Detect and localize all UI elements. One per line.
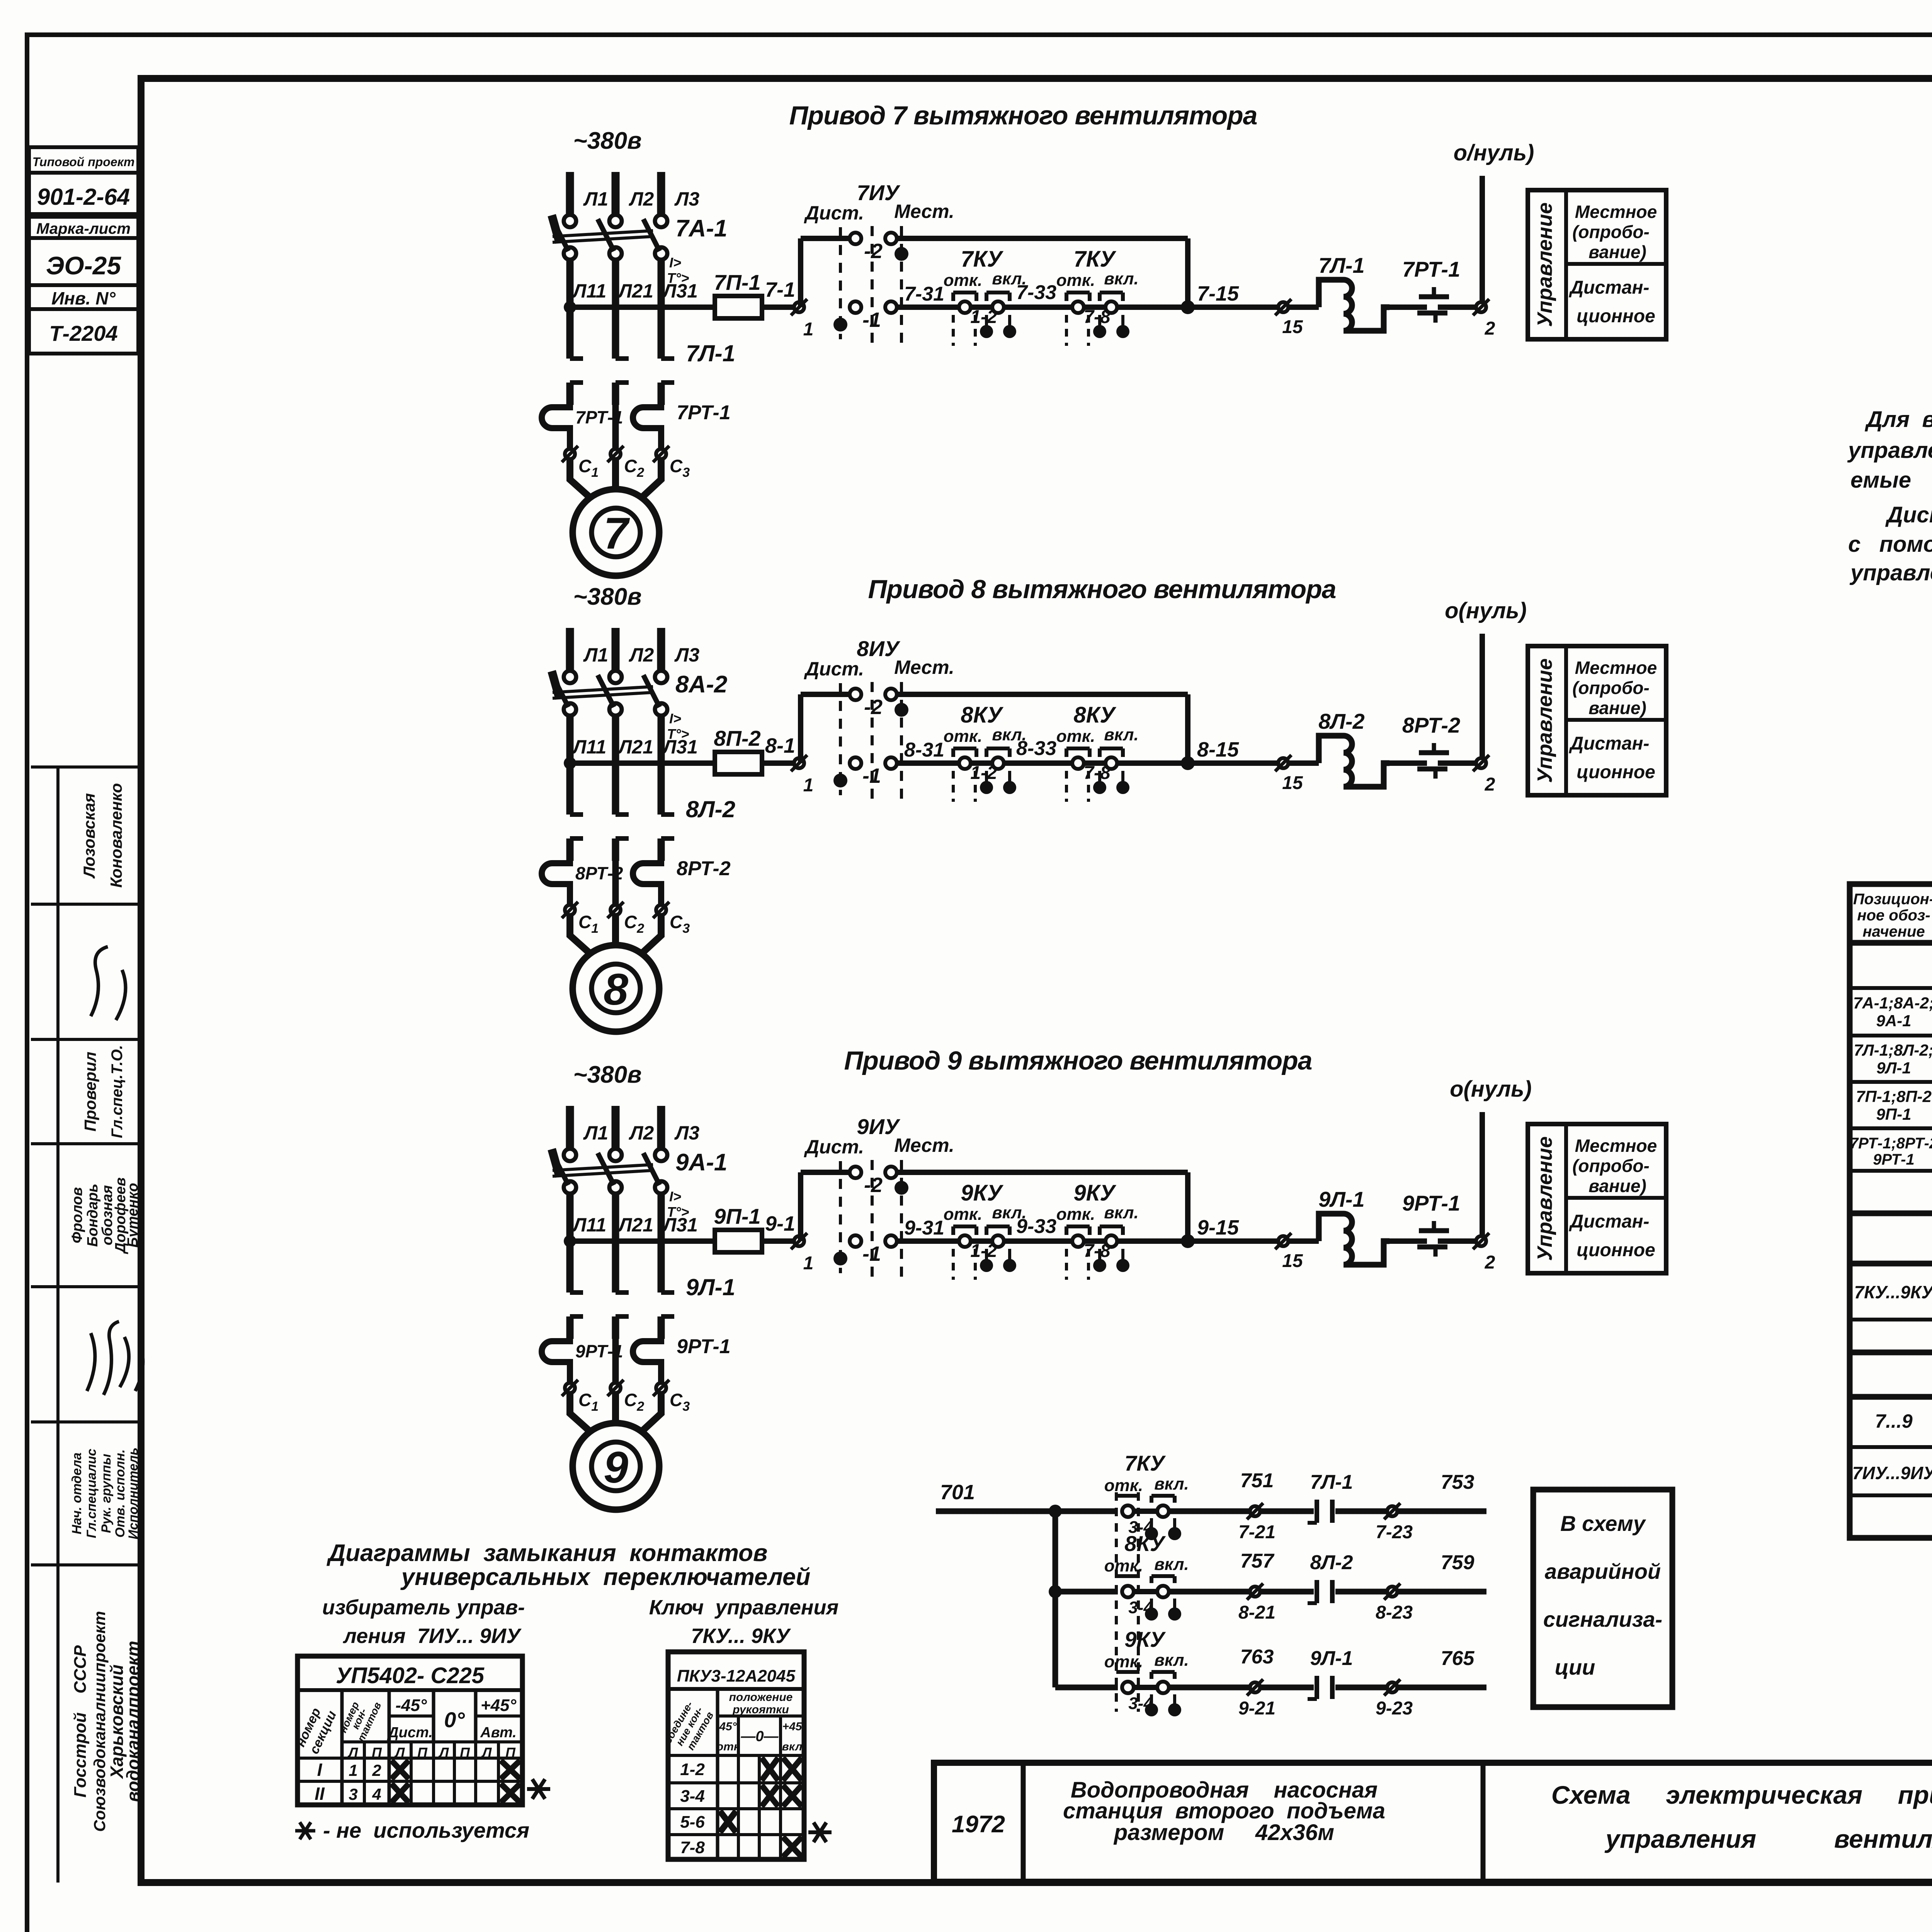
svg-text:2: 2 — [1485, 1252, 1495, 1273]
svg-text:751: 751 — [1240, 1469, 1274, 1492]
motor terminals С1 С2 С3 (9) — [562, 1380, 690, 1414]
thermal relay heater 7РТ-1 pole3 — [633, 401, 731, 448]
node labels Л1 Л2 Л3 (9) — [583, 1122, 699, 1144]
svg-text:7П-1;8П-2: 7П-1;8П-2 — [1856, 1087, 1932, 1105]
contactor main contacts 8Л-2 — [570, 796, 735, 861]
wire lower branch after selector (9) — [896, 1238, 959, 1244]
contactor coil 9Л-1 — [1318, 1187, 1389, 1265]
wire bypass riser and upper branch (9) — [801, 1172, 850, 1241]
aux circuit node 701 — [936, 1481, 1118, 1511]
svg-text:9РТ-1: 9РТ-1 — [1873, 1151, 1914, 1168]
selector switch 7ИУ — [804, 180, 954, 347]
svg-text:Дист.: Дист. — [804, 1136, 864, 1158]
control mode box (7) — [1528, 190, 1666, 339]
svg-text:7А-1: 7А-1 — [675, 215, 727, 242]
svg-text:45°: 45° — [719, 1720, 737, 1733]
svg-text:Рук. группы: Рук. группы — [99, 1454, 114, 1533]
key switch contact 9КУ 1-2 — [944, 1180, 1027, 1280]
row Пускатель магнитный — [1854, 1041, 1932, 1083]
node label 8-31 — [904, 739, 944, 761]
node labels Л11 Л21 Л31 (8) — [572, 736, 698, 758]
wire phase stubs Л1 Л2 Л3 (9) — [570, 1106, 661, 1149]
wire to junction 9-15 — [1117, 1216, 1239, 1248]
svg-text:+45: +45 — [782, 1720, 803, 1733]
selector switch 8ИУ — [804, 636, 954, 803]
svg-text:2: 2 — [1485, 774, 1495, 795]
svg-text:757: 757 — [1240, 1550, 1275, 1572]
svg-text:7-15: 7-15 — [1197, 282, 1239, 305]
wire upper branch to junction (7) — [896, 238, 1188, 307]
diagram table УП5402-С225 — [293, 1656, 522, 1805]
aux wire row2 — [1055, 1589, 1118, 1595]
signature scribbles 2 — [87, 1321, 143, 1395]
svg-text:8РТ-2: 8РТ-2 — [677, 857, 731, 880]
svg-text:9П-1: 9П-1 — [714, 1204, 760, 1228]
key switch contact 7КУ 7-8 — [1056, 247, 1139, 346]
thermal relay heater 8РТ-2 pole3 — [633, 857, 731, 904]
svg-text:759: 759 — [1441, 1551, 1475, 1574]
svg-text:Местное: Местное — [1575, 202, 1657, 222]
wire control tap from phase 1 (8) — [564, 757, 715, 769]
svg-text:вкл: вкл — [782, 1740, 803, 1753]
control mode box (9) — [1528, 1124, 1666, 1273]
fuse 7П-1 — [714, 270, 762, 318]
aux key contact 8КУ row — [1104, 1531, 1189, 1621]
svg-text:901-2-64: 901-2-64 — [37, 184, 130, 210]
wire fuse to terminal (7) — [762, 304, 794, 310]
svg-text:7П-1: 7П-1 — [714, 270, 760, 294]
svg-text:Марка-лист: Марка-лист — [36, 220, 131, 237]
table header texts — [1853, 889, 1932, 940]
wire to junction 8-15 — [1117, 738, 1239, 770]
svg-text:Л21: Л21 — [617, 280, 653, 302]
contactor coil 7Л-1 — [1318, 253, 1389, 331]
aux terminal 765 — [1335, 1647, 1486, 1719]
svg-text:—0—: —0— — [740, 1728, 779, 1745]
asterisk left — [527, 1779, 550, 1799]
svg-text:о(нуль): о(нуль) — [1445, 598, 1527, 623]
svg-text:9Л-1: 9Л-1 — [1876, 1059, 1911, 1077]
aux key contact 7КУ row — [1104, 1451, 1189, 1540]
wire between pairs / node 9-33 — [1003, 1215, 1073, 1241]
title block drawing name — [1551, 1781, 1932, 1853]
svg-text:8-31: 8-31 — [904, 739, 944, 761]
svg-text:о/нуль): о/нуль) — [1454, 140, 1534, 165]
cell отдел titles — [70, 1447, 141, 1539]
svg-text:9-1: 9-1 — [765, 1212, 795, 1235]
svg-text:Мест.: Мест. — [894, 656, 954, 678]
svg-text:ционное: ционное — [1577, 1240, 1655, 1260]
svg-text:Л11: Л11 — [572, 1214, 606, 1236]
svg-text:7-8: 7-8 — [1083, 763, 1111, 783]
svg-text:9КУ: 9КУ — [1124, 1627, 1166, 1651]
signature scribbles 1 — [91, 947, 126, 1020]
svg-text:Дист.: Дист. — [804, 658, 864, 680]
svg-text:Бондарь: Бондарь — [85, 1184, 101, 1247]
svg-text:Гл.спец.Т.О.: Гл.спец.Т.О. — [109, 1045, 126, 1138]
note не используется — [295, 1818, 529, 1842]
stamp Т-2204 — [29, 309, 138, 354]
svg-text:отк.: отк. — [1104, 1476, 1143, 1495]
svg-text:8А-2: 8А-2 — [675, 671, 727, 698]
svg-text:-2: -2 — [864, 696, 883, 719]
svg-text:9РТ-1: 9РТ-1 — [677, 1335, 731, 1358]
svg-text:7: 7 — [604, 509, 630, 558]
svg-text:1: 1 — [349, 1761, 357, 1779]
svg-text:начение: начение — [1862, 923, 1925, 940]
aux key contact 9КУ row — [1104, 1627, 1189, 1716]
svg-text:I>: I> — [669, 1189, 681, 1204]
diagrams heading — [327, 1540, 811, 1590]
svg-text:9-21: 9-21 — [1238, 1698, 1276, 1719]
svg-text:- не используется: - не используется — [323, 1818, 529, 1842]
svg-text:3-4: 3-4 — [680, 1787, 705, 1806]
svg-text:7-23: 7-23 — [1376, 1522, 1413, 1543]
svg-text:2: 2 — [372, 1761, 381, 1779]
svg-text:7КУ: 7КУ — [1124, 1451, 1166, 1475]
svg-text:9Л-1: 9Л-1 — [686, 1274, 735, 1300]
svg-text:Позицион-: Позицион- — [1853, 891, 1932, 908]
svg-text:763: 763 — [1240, 1646, 1274, 1668]
svg-text:2: 2 — [1485, 318, 1495, 339]
svg-text:Управление: Управление — [1533, 1136, 1556, 1261]
svg-text:управления вентилято: управления вентиляторами — [1604, 1825, 1932, 1853]
svg-text:9А-1: 9А-1 — [1876, 1012, 1911, 1030]
parts table grid — [1850, 884, 1932, 1538]
svg-text:Привод 7 вытяжного вентилятора: Привод 7 вытяжного вентилятора — [789, 101, 1257, 130]
svg-text:9А-1: 9А-1 — [675, 1149, 727, 1176]
svg-text:отк.: отк. — [1056, 271, 1095, 290]
svg-text:Лозовская: Лозовская — [80, 793, 98, 879]
contactor coil 8Л-2 — [1318, 709, 1389, 787]
wire neutral riser (9) — [1480, 1112, 1485, 1236]
svg-text:вкл.: вкл. — [1154, 1475, 1189, 1493]
svg-text:ПКУ3-12А2045: ПКУ3-12А2045 — [677, 1667, 796, 1685]
svg-text:Л1: Л1 — [583, 188, 608, 210]
svg-text:Союзводоканалниипроект: Союзводоканалниипроект — [90, 1611, 109, 1832]
svg-text:отк.: отк. — [944, 1205, 983, 1224]
svg-text:Привод 8 вытяжного вентилятора: Привод 8 вытяжного вентилятора — [868, 575, 1336, 604]
net label о/нуль) (7) — [1454, 140, 1534, 165]
svg-text:Дистан-: Дистан- — [1568, 1211, 1649, 1232]
svg-text:753: 753 — [1441, 1471, 1475, 1493]
svg-text:вание): вание) — [1588, 1176, 1646, 1196]
svg-text:1972: 1972 — [952, 1811, 1005, 1838]
svg-text:(опробо-: (опробо- — [1572, 1156, 1650, 1176]
wires to motor (7) — [570, 459, 661, 499]
svg-text:ное обоз-: ное обоз- — [1857, 907, 1930, 924]
svg-text:отк.: отк. — [944, 271, 983, 290]
svg-text:Управление: Управление — [1533, 202, 1556, 327]
svg-text:7Л-1: 7Л-1 — [1318, 253, 1364, 277]
svg-text:-1: -1 — [862, 764, 881, 787]
svg-text:1: 1 — [803, 1253, 814, 1274]
title Привод 7 — [789, 101, 1257, 130]
wire bypass riser and upper branch (7) — [801, 238, 850, 307]
svg-text:ционное: ционное — [1577, 762, 1655, 782]
row Электродвигатель — [1875, 1400, 1932, 1437]
svg-text:9Л-1: 9Л-1 — [1310, 1647, 1353, 1670]
node labels Л1 Л2 Л3 (8) — [583, 644, 699, 666]
svg-text:-45°: -45° — [395, 1696, 427, 1715]
svg-text:7КУ: 7КУ — [961, 247, 1003, 272]
svg-text:8Л-2: 8Л-2 — [1318, 709, 1364, 733]
svg-text:вкл.: вкл. — [1104, 269, 1139, 288]
svg-text:Дистан-: Дистан- — [1568, 733, 1649, 754]
contactor main contacts 9Л-1 — [570, 1274, 735, 1339]
svg-text:Дистан-: Дистан- — [1568, 277, 1649, 298]
diagram table ПКУ3-12А2045 — [662, 1652, 804, 1859]
aux contactor contact 7Л-1 — [1260, 1471, 1353, 1523]
svg-text:8П-2: 8П-2 — [714, 726, 760, 750]
svg-text:о(нуль): о(нуль) — [1450, 1077, 1532, 1102]
svg-text:аварийной: аварийной — [1545, 1559, 1661, 1583]
svg-text:вкл.: вкл. — [1104, 725, 1139, 744]
svg-text:7А-1;8А-2;: 7А-1;8А-2; — [1853, 994, 1932, 1012]
svg-text:-1: -1 — [862, 1242, 881, 1265]
svg-text:Исполнитель: Исполнитель — [126, 1447, 141, 1539]
svg-text:Л2: Л2 — [629, 644, 654, 666]
svg-text:8Л-2: 8Л-2 — [1310, 1551, 1353, 1574]
svg-text:-2: -2 — [864, 1173, 883, 1197]
circuit breaker 7А-1 — [552, 215, 727, 286]
svg-text:отк.: отк. — [1104, 1652, 1143, 1671]
svg-text:+45°: +45° — [481, 1696, 517, 1715]
svg-text:7-1: 7-1 — [765, 278, 795, 301]
wire terminal to coil (7) — [1289, 304, 1319, 310]
svg-text:избиратель управ-: избиратель управ- — [322, 1596, 525, 1619]
net label о(нуль) (8) — [1445, 598, 1527, 623]
svg-text:вкл.: вкл. — [1104, 1203, 1139, 1222]
aux terminal 759 — [1335, 1551, 1486, 1623]
svg-text:Проверил: Проверил — [81, 1052, 99, 1132]
svg-text:8-1: 8-1 — [765, 734, 795, 757]
svg-text:9: 9 — [604, 1443, 628, 1492]
aux junction riser — [1049, 1505, 1062, 1687]
svg-text:1-2: 1-2 — [680, 1760, 705, 1779]
svg-text:7-21: 7-21 — [1238, 1522, 1276, 1543]
aux contactor contact 9Л-1 — [1260, 1647, 1353, 1699]
svg-text:(опробо-: (опробо- — [1572, 678, 1650, 698]
fuse 9П-1 — [714, 1204, 762, 1252]
signature cell Лазовская/Коноваленко — [80, 783, 125, 888]
wire junction to terminal 15 (9) — [1188, 1238, 1278, 1244]
svg-text:Дист.: Дист. — [387, 1725, 433, 1741]
svg-text:5-6: 5-6 — [680, 1813, 705, 1832]
svg-text:управления и контроля.: управления и контроля. — [1849, 560, 1932, 585]
wires to motor (8) — [570, 915, 661, 955]
wire lower branch after selector (7) — [896, 304, 959, 310]
wire neutral riser (7) — [1480, 176, 1485, 302]
svg-text:УП5402- С225: УП5402- С225 — [336, 1663, 485, 1688]
wire to junction 7-15 — [1117, 282, 1239, 314]
wire between pairs / node 8-33 — [1003, 737, 1073, 763]
svg-text:0°: 0° — [444, 1708, 465, 1732]
wire junction to terminal 15 (8) — [1188, 760, 1278, 766]
title block year 1972 — [952, 1811, 1005, 1838]
wire pole2 (9) — [612, 1339, 619, 1382]
svg-text:Л2: Л2 — [629, 188, 654, 210]
svg-text:сигнализа-: сигнализа- — [1543, 1607, 1662, 1631]
svg-text:9П-1: 9П-1 — [1876, 1105, 1912, 1123]
svg-text:Инв. N°: Инв. N° — [51, 288, 116, 308]
svg-text:Л21: Л21 — [617, 1214, 653, 1236]
svg-text:7-31: 7-31 — [904, 283, 944, 305]
net label о(нуль) (9) — [1450, 1077, 1532, 1102]
svg-text:универсальных переключателей: универсальных переключателей — [400, 1564, 811, 1590]
stamp box Типовой проект — [29, 147, 138, 173]
row Автоматический выключатель — [1853, 994, 1932, 1037]
svg-text:-1: -1 — [862, 308, 881, 332]
thermal relay heater 7РТ-1 pole1 — [542, 405, 623, 448]
svg-text:Госстрой СССР: Госстрой СССР — [71, 1645, 90, 1798]
svg-text:-2: -2 — [864, 240, 883, 263]
svg-text:Л3: Л3 — [674, 644, 699, 666]
svg-text:9КУ: 9КУ — [1073, 1180, 1116, 1206]
svg-text:8РТ-2: 8РТ-2 — [1402, 713, 1460, 737]
cell Проверил / Гл.спец.Т.О. — [81, 1045, 126, 1138]
wire neutral riser (8) — [1480, 634, 1485, 758]
cell Фролов Бондарь обозная Дорофеев Бутенко — [69, 1177, 141, 1254]
svg-text:I>: I> — [669, 255, 681, 270]
terminal 15 (8) — [1275, 755, 1303, 793]
wire poles below breaker (9) — [570, 1194, 661, 1293]
asterisk right — [808, 1823, 832, 1842]
contactor main contacts 7Л-1 — [570, 340, 735, 405]
svg-text:7РТ-1: 7РТ-1 — [1402, 257, 1460, 281]
svg-text:ции: ции — [1555, 1655, 1595, 1679]
notes paragraph 1 — [1847, 407, 1932, 493]
svg-text:Дист.: Дист. — [804, 202, 864, 224]
svg-text:отк.: отк. — [1056, 1205, 1095, 1224]
svg-text:Л11: Л11 — [572, 280, 606, 302]
wire terminal to coil (9) — [1289, 1238, 1319, 1244]
fuse 8П-2 — [714, 726, 762, 774]
svg-text:7-8: 7-8 — [1083, 307, 1111, 327]
title block object name — [1063, 1777, 1385, 1845]
svg-text:9-23: 9-23 — [1376, 1698, 1413, 1719]
svg-text:3-4: 3-4 — [1128, 1598, 1153, 1617]
stamp 901-2-64 — [29, 173, 138, 214]
aux position dashed lines — [1116, 1492, 1138, 1712]
terminal 2 (7) — [1473, 299, 1495, 339]
svg-text:3: 3 — [349, 1785, 357, 1803]
svg-text:4: 4 — [372, 1785, 381, 1803]
terminal 7-1 — [765, 278, 813, 340]
svg-text:размером 42х36м: размером 42х36м — [1113, 1820, 1334, 1845]
svg-text:ления 7ИУ... 9ИУ: ления 7ИУ... 9ИУ — [342, 1624, 522, 1648]
svg-text:7-8: 7-8 — [680, 1838, 705, 1857]
terminal 15 (7) — [1275, 299, 1303, 337]
box В схему аварийной сигнализации — [1533, 1490, 1672, 1707]
svg-text:Диаграммы замыкания контакто: Диаграммы замыкания контактов — [327, 1540, 768, 1566]
terminal 15 (9) — [1275, 1233, 1303, 1271]
svg-text:ЭО-25: ЭО-25 — [46, 251, 121, 280]
svg-text:Дистанционное управлени: Дистанционное управление осуществляется — [1885, 502, 1932, 527]
thermal relay contact 7РТ-1 — [1389, 257, 1477, 323]
svg-text:7КУ: 7КУ — [1073, 247, 1116, 272]
svg-text:7РТ-1: 7РТ-1 — [677, 401, 731, 424]
circuit breaker 9А-1 — [552, 1149, 727, 1220]
svg-text:I: I — [317, 1760, 323, 1780]
svg-text:вкл.: вкл. — [1154, 1555, 1189, 1574]
svg-text:Л31: Л31 — [662, 736, 698, 758]
svg-text:9Л-1: 9Л-1 — [1318, 1187, 1364, 1211]
wire poles below breaker (8) — [570, 716, 661, 815]
left margin column verticals — [56, 767, 60, 1883]
title block grid — [934, 1763, 1932, 1882]
svg-text:1: 1 — [803, 319, 814, 340]
stamp box Инв.№ — [29, 285, 138, 309]
net ~380в feed 9 — [573, 1061, 641, 1088]
stamp table dividers — [31, 767, 141, 1565]
svg-text:9РТ-1: 9РТ-1 — [1402, 1191, 1460, 1215]
svg-text:Л11: Л11 — [572, 736, 606, 758]
svg-text:Местное: Местное — [1575, 1136, 1657, 1156]
node label 7-31 — [904, 283, 944, 305]
svg-text:Отв. исполн.: Отв. исполн. — [113, 1449, 128, 1537]
thermal relay heater 8РТ-2 pole1 — [542, 861, 623, 904]
net ~380в feed 7 — [573, 128, 641, 154]
selector switch 9ИУ — [804, 1114, 954, 1281]
aux contactor contact 8Л-2 — [1260, 1551, 1353, 1603]
wire control tap from phase 1 (9) — [564, 1235, 715, 1247]
svg-text:1-2: 1-2 — [970, 1241, 997, 1261]
svg-text:вание): вание) — [1588, 242, 1646, 262]
row переключатель кулачковый — [1854, 1271, 1932, 1311]
svg-text:8КУ: 8КУ — [1073, 702, 1116, 728]
aux terminal 753 — [1335, 1471, 1486, 1543]
terminal 2 (8) — [1473, 755, 1495, 795]
svg-text:отк.: отк. — [1104, 1556, 1143, 1575]
svg-text:Л21: Л21 — [617, 736, 653, 758]
wire pole2 (7) — [612, 405, 619, 448]
terminal 9-1 — [765, 1212, 813, 1274]
motor 7 — [573, 489, 659, 576]
control mode box (8) — [1528, 646, 1666, 795]
svg-text:емые избирателями 7ИУ...: емые избирателями 7ИУ... 9ИУ. — [1850, 468, 1932, 493]
svg-text:Управление: Управление — [1533, 658, 1556, 783]
wire poles below breaker (7) — [570, 260, 661, 359]
svg-text:3-4: 3-4 — [1128, 1694, 1153, 1713]
svg-text:7-8: 7-8 — [1083, 1241, 1111, 1261]
svg-text:1-2: 1-2 — [970, 307, 997, 327]
svg-text:7Л-1;8Л-2;: 7Л-1;8Л-2; — [1854, 1041, 1932, 1059]
svg-text:Схема электрическая пр: Схема электрическая принципиальная — [1551, 1781, 1932, 1809]
svg-text:Л1: Л1 — [583, 1122, 608, 1144]
svg-text:Л2: Л2 — [629, 1122, 654, 1144]
wire control tap from phase 1 (7) — [564, 301, 715, 313]
aux wire + terminal 763 — [1168, 1646, 1276, 1719]
svg-text:В схему: В схему — [1560, 1511, 1646, 1536]
title Привод 9 — [844, 1046, 1312, 1075]
wire lower branch after selector (8) — [896, 760, 959, 766]
svg-text:Местное: Местное — [1575, 658, 1657, 678]
svg-text:1-2: 1-2 — [970, 763, 997, 783]
motor 8 — [573, 945, 659, 1032]
svg-text:8-15: 8-15 — [1197, 738, 1239, 761]
svg-text:Л31: Л31 — [662, 280, 698, 302]
title Привод 8 — [868, 575, 1336, 604]
key switch contact 8КУ 1-2 — [944, 702, 1027, 802]
svg-text:ционное: ционное — [1577, 306, 1655, 327]
net ~380в feed 8 — [573, 583, 641, 610]
svg-text:I>: I> — [669, 711, 681, 726]
wire between pairs / node 7-33 — [1003, 281, 1073, 307]
wire fuse to terminal (9) — [762, 1238, 794, 1244]
wires to motor (9) — [570, 1393, 661, 1433]
svg-text:~380в: ~380в — [573, 583, 641, 610]
